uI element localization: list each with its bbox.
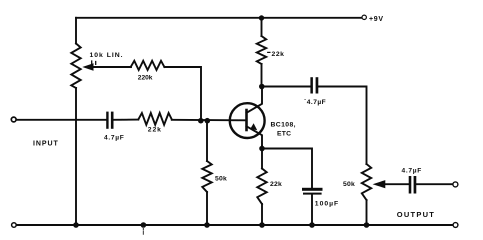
wire coupling capacitor to right vertical (corner)	[318, 87, 366, 165]
potentiometer 50k (track)	[362, 164, 371, 200]
transistor collector lead	[247, 89, 263, 113]
resistor 22k collector (top lead)	[261, 18, 263, 36]
svg-text:100µF: 100µF	[315, 200, 339, 207]
transistor emitter arrowhead	[250, 123, 257, 130]
svg-text:BC108,: BC108,	[271, 122, 296, 129]
wire 22k to transistor base	[172, 119, 245, 122]
wire stub below rail at x=143	[142, 228, 144, 236]
svg-text:22k: 22k	[148, 126, 162, 133]
node base junction (from 220k)	[198, 118, 204, 124]
output terminal	[453, 182, 458, 187]
capacitor 100uF (plates)	[302, 188, 323, 195]
wire output capacitor to output terminal	[416, 183, 452, 185]
wire 100uF to bottom rail	[311, 195, 313, 225]
wire 22k emitter to bottom rail	[261, 204, 263, 225]
transistor base bar	[245, 110, 248, 130]
resistor 22k emitter	[257, 169, 266, 205]
resistor 22k collector bottom lead	[261, 64, 263, 87]
ground terminal right	[453, 223, 458, 228]
transistor Q1 BC108 (circle)	[230, 103, 265, 138]
wire 220k to base node (corner)	[164, 67, 201, 121]
svg-text:10k LIN.: 10k LIN.	[90, 52, 124, 59]
node collector junction	[259, 84, 265, 90]
wire input terminal to capacitor	[17, 119, 107, 121]
potentiometer 10k wiper arrow	[82, 63, 131, 70]
node bottom rail x=76	[73, 222, 79, 228]
resistor 50k bias	[202, 161, 211, 192]
wire capacitor to 22k	[114, 119, 139, 121]
node bottom rail x=143	[141, 222, 147, 228]
wire emitter to 100uF (corner)	[262, 149, 312, 189]
svg-text:50k: 50k	[343, 181, 355, 188]
svg-text:22k: 22k	[272, 51, 285, 58]
label 22k collector (with leader tick)	[268, 51, 270, 53]
node bottom rail x=312	[309, 222, 315, 228]
svg-text:INPUT: INPUT	[33, 141, 59, 148]
wire top supply rail	[76, 17, 361, 19]
transistor emitter lead	[247, 126, 263, 146]
node bottom rail x=207	[204, 222, 210, 228]
wire emitter junction vertical	[261, 146, 263, 169]
svg-text:22k: 22k	[270, 181, 282, 188]
node bottom rail x=366	[364, 222, 370, 228]
wire left vertical from potentiometer to bottom rail	[75, 88, 77, 225]
node base junction (to 50k)	[205, 118, 211, 124]
node top rail / collector branch junction	[259, 15, 264, 20]
ground terminal left	[12, 223, 17, 228]
resistor 50k bias (lead)	[206, 121, 208, 161]
svg-text:ETC: ETC	[277, 131, 291, 138]
wire 50k bias to bottom rail	[206, 192, 208, 225]
svg-text:OUTPUT: OUTPUT	[397, 210, 435, 219]
svg-text:4.7µF: 4.7µF	[104, 134, 125, 141]
wire 50k pot to bottom rail	[366, 200, 368, 225]
node emitter junction	[259, 146, 265, 152]
node bottom rail x=262	[259, 222, 265, 228]
svg-text:´4.7µF: ´4.7µF	[304, 99, 326, 106]
+9V terminal	[362, 15, 366, 19]
resistor 22k collector	[257, 36, 266, 64]
wiper tick marks	[92, 61, 96, 64]
wire collector to coupling capacitor	[262, 86, 311, 88]
resistor 22k input	[138, 113, 172, 125]
wire bottom ground rail	[17, 224, 453, 226]
capacitor 4.7uF coupling	[310, 77, 318, 93]
resistor 220k	[131, 61, 165, 70]
potentiometer 10k LIN (track)	[71, 44, 80, 89]
svg-text:+9V: +9V	[369, 16, 384, 23]
svg-text:4.7µF: 4.7µF	[402, 167, 423, 174]
input terminal	[11, 117, 16, 122]
svg-text:50k: 50k	[215, 175, 227, 182]
potentiometer 50k wiper arrow	[373, 180, 409, 188]
capacitor 4.7uF input	[106, 112, 113, 129]
wire left vertical from top rail to potentiometer	[75, 18, 77, 44]
capacitor 4.7uF output	[409, 176, 417, 194]
svg-text:220k: 220k	[138, 75, 153, 82]
